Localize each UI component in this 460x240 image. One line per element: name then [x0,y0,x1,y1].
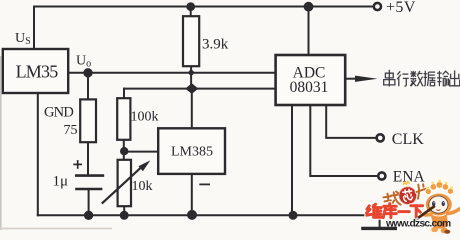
resistor 3.9k [183,16,199,66]
node rail LM385 [187,210,197,220]
resistor 100k [117,98,130,140]
wire LM35 GND lead [37,93,39,215]
watermark logo zhao xin pian [382,179,430,208]
svg-text:LM35: LM35 [16,61,59,81]
wire 100k bottom lead [123,140,125,160]
svg-text:75: 75 [64,123,78,138]
watermark mascot [414,180,459,234]
label serial data output (shu) [410,71,423,86]
reference LM385 [158,128,225,174]
node Vref diamond [185,83,198,94]
scan artifact left edge [0,56,2,230]
node 3.9k crossing [189,70,194,75]
watermark text weiku yixia [367,204,423,218]
wire +5V top rail [34,6,373,8]
label serial data output (ju) [424,71,436,86]
ground stub [379,215,381,227]
svg-text:100k: 100k [131,110,159,125]
sensor LM35 [3,49,68,93]
scan artifact bottom line [0,228,112,230]
node rail ADC [289,211,298,220]
serial data output arrow [345,76,377,82]
label serial data output (shu2) [437,71,449,86]
potentiometer arrow [102,160,151,203]
wire ground bottom rail [38,214,380,216]
svg-text:10k: 10k [132,179,153,194]
wire 3.9k top lead [190,7,192,17]
wire capacitor bottom lead [88,189,90,215]
label serial data output (chu) [450,70,460,86]
svg-text:CLK: CLK [392,131,424,148]
node rail capacitor [84,211,93,220]
svg-text:www.dzsc.com: www.dzsc.com [385,219,451,230]
svg-text:LM385: LM385 [171,145,213,160]
wire ADC top lead [308,7,310,56]
svg-text:GND: GND [44,105,73,121]
node top rail ADC [304,2,314,12]
capacitor 1u [75,176,104,189]
wire 100k top lead [123,89,125,99]
resistor 75 [80,99,96,142]
node rail 10k [120,211,129,220]
wire Uo line [68,72,275,74]
label serial data output (xing) [397,71,409,86]
wire LM385 top lead [191,89,193,129]
label plus [73,160,82,169]
wire 3.9k bottom lead [190,66,192,88]
wire ADC ENA lead [310,105,377,176]
wire ADC DGND lead [291,105,293,215]
wire 75 top lead [87,73,89,100]
wire Vref bus [124,88,276,90]
terminal CLK [377,134,384,141]
label minus [199,183,210,185]
terminal +5V [374,3,381,10]
svg-text:+5V: +5V [386,0,416,16]
svg-text:08031: 08031 [290,79,329,96]
wire 75 to capacitor [87,142,89,175]
potentiometer 10k [118,160,131,206]
node Uo junction [83,68,92,77]
terminal ENA [378,172,385,179]
wire LM385 bottom lead [191,174,193,215]
node 100k-10k junction [120,147,128,155]
wire ADC CLK lead [326,105,375,138]
svg-text:3.9k: 3.9k [202,37,229,53]
node top rail 3.9k [186,2,195,11]
wire LM35 Us lead [33,7,35,50]
adc ADC08031 [276,55,346,105]
wire 10k bottom lead [123,206,125,215]
wire junction to LM385 [124,151,158,153]
svg-text:1μ: 1μ [53,174,69,190]
label serial data output (chuan) [384,70,395,87]
ground bar [361,227,397,230]
